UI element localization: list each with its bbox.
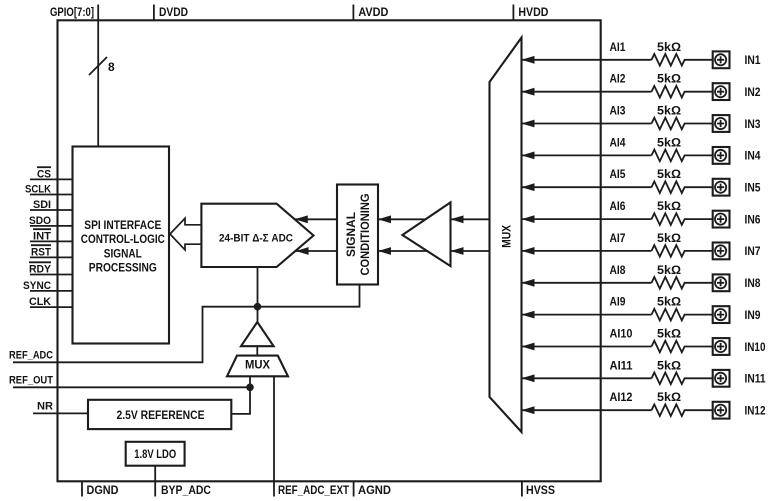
hollow bus arrow ADC to SPI <box>170 218 201 250</box>
node AI2 input line <box>522 72 652 96</box>
svg-text:MUX: MUX <box>500 225 514 248</box>
svg-text:5kΩ: 5kΩ <box>657 40 681 54</box>
svg-text:BYP_ADC: BYP_ADC <box>161 483 211 497</box>
svg-text:DVDD: DVDD <box>159 5 188 19</box>
wire LDO to BYP_ADC <box>154 466 156 497</box>
svg-text:REF_OUT: REF_OUT <box>9 374 53 386</box>
terminal IN10 <box>713 338 766 355</box>
resistor 5k ohm row 4 <box>652 135 713 161</box>
terminal IN6 <box>713 211 761 228</box>
buffer amp B1 <box>241 322 274 346</box>
svg-text:AI2: AI2 <box>610 72 626 86</box>
wire mux right leg REF_ADC_EXT <box>273 376 275 496</box>
svg-text:5kΩ: 5kΩ <box>657 135 681 149</box>
svg-text:REF_ADC_EXT: REF_ADC_EXT <box>278 483 350 497</box>
terminal IN3 <box>713 115 761 132</box>
terminal IN1 <box>713 51 761 68</box>
svg-text:AI6: AI6 <box>610 199 626 213</box>
svg-text:5kΩ: 5kΩ <box>657 295 681 309</box>
mux U2 input MUX <box>490 38 522 433</box>
pin INT <box>30 229 73 242</box>
wire node to reference block <box>231 387 250 414</box>
wire REF_ADC to reference node <box>13 285 360 363</box>
svg-text:MUX: MUX <box>245 357 270 371</box>
node AI4 input line <box>522 135 652 159</box>
svg-text:INT: INT <box>33 230 51 242</box>
wire MUX to amp upper <box>451 215 490 223</box>
node AI6 input line <box>522 199 652 223</box>
svg-text:GPIO[7:0]: GPIO[7:0] <box>50 5 94 19</box>
svg-text:CONDITIONING: CONDITIONING <box>358 194 372 276</box>
wire GPIO bus <box>97 20 99 146</box>
svg-text:IN1: IN1 <box>745 53 761 67</box>
svg-text:IN2: IN2 <box>745 85 761 99</box>
svg-text:IN9: IN9 <box>745 308 761 322</box>
pin RDY <box>29 262 73 275</box>
svg-text:5kΩ: 5kΩ <box>657 263 681 277</box>
svg-text:5kΩ: 5kΩ <box>657 390 681 404</box>
terminal IN11 <box>713 370 766 387</box>
junction node ref <box>254 303 262 311</box>
block 2.5V reference <box>88 400 231 429</box>
svg-text:IN4: IN4 <box>745 149 761 163</box>
wire REF_OUT <box>13 386 250 388</box>
svg-text:CONTROL-LOGIC: CONTROL-LOGIC <box>81 232 165 246</box>
svg-text:SIGNAL: SIGNAL <box>344 212 358 257</box>
svg-text:AI7: AI7 <box>610 231 626 245</box>
svg-text:IN7: IN7 <box>745 244 761 258</box>
terminal IN7 <box>713 243 761 260</box>
pin SCLK <box>25 184 73 196</box>
svg-text:AI3: AI3 <box>610 104 626 118</box>
pin CS <box>30 167 73 180</box>
svg-text:5kΩ: 5kΩ <box>657 199 681 213</box>
svg-text:REF_ADC: REF_ADC <box>9 349 53 361</box>
pin CLK <box>29 296 73 308</box>
node AI7 input line <box>522 231 652 255</box>
node AI11 input line <box>522 358 652 382</box>
node AI8 input line <box>522 263 652 287</box>
svg-text:SDO: SDO <box>29 215 51 227</box>
terminal IN2 <box>713 83 761 100</box>
pin REF_ADC_EXT <box>278 483 350 497</box>
pin RST <box>30 245 73 258</box>
op-amp buffer A1 <box>402 202 450 266</box>
resistor 5k ohm row 5 <box>652 167 713 193</box>
pin GPIO[7:0] <box>50 5 98 21</box>
svg-text:IN5: IN5 <box>745 181 761 195</box>
svg-text:8: 8 <box>108 60 115 74</box>
pin SDO <box>29 215 73 227</box>
terminal IN5 <box>713 179 761 196</box>
svg-text:SIGNAL: SIGNAL <box>104 246 142 260</box>
node AI10 input line <box>522 327 652 351</box>
svg-text:AI5: AI5 <box>610 167 626 181</box>
terminal IN8 <box>713 274 761 291</box>
resistor 5k ohm row 2 <box>652 72 713 98</box>
mux U3 reference MUX <box>227 356 288 377</box>
svg-text:IN11: IN11 <box>745 372 766 386</box>
svg-text:CS: CS <box>37 168 51 180</box>
node AI3 input line <box>522 104 652 128</box>
wire buffer to mux <box>256 346 258 355</box>
svg-text:24-BIT Δ-Σ ADC: 24-BIT Δ-Σ ADC <box>219 232 293 244</box>
svg-text:RDY: RDY <box>29 264 52 276</box>
resistor 5k ohm row 9 <box>652 295 713 321</box>
svg-text:IN10: IN10 <box>745 340 766 354</box>
svg-text:2.5V REFERENCE: 2.5V REFERENCE <box>117 408 205 422</box>
chip body outline <box>58 20 601 481</box>
svg-text:IN3: IN3 <box>745 117 761 131</box>
bus width slash 8 <box>89 57 115 75</box>
svg-text:5kΩ: 5kΩ <box>657 358 681 372</box>
pin AGND <box>354 481 392 497</box>
pin DGND <box>82 481 119 497</box>
svg-text:AI10: AI10 <box>610 327 633 341</box>
junction node ref_out <box>246 384 254 392</box>
svg-text:HVDD: HVDD <box>518 5 548 19</box>
pin HVDD <box>513 5 548 21</box>
node AI5 input line <box>522 167 652 191</box>
resistor 5k ohm row 7 <box>652 231 713 257</box>
wire MUX to amp lower <box>451 247 490 255</box>
svg-text:SPI INTERFACE: SPI INTERFACE <box>84 218 161 232</box>
node AI12 input line <box>522 390 652 414</box>
resistor 5k ohm row 12 <box>652 390 713 416</box>
wire ADC to node <box>257 267 259 322</box>
block 24-bit delta-sigma ADC <box>201 204 313 267</box>
svg-text:AI8: AI8 <box>610 263 626 277</box>
svg-text:5kΩ: 5kΩ <box>657 104 681 118</box>
resistor 5k ohm row 11 <box>652 358 713 384</box>
svg-text:NR: NR <box>37 400 53 412</box>
svg-text:AVDD: AVDD <box>358 5 388 19</box>
node AI9 input line <box>522 295 652 319</box>
resistor 5k ohm row 3 <box>652 104 713 130</box>
svg-text:AI4: AI4 <box>610 135 626 149</box>
pin REF_ADC <box>9 349 53 361</box>
svg-text:IN8: IN8 <box>745 276 761 290</box>
terminal IN9 <box>713 306 761 323</box>
svg-text:SCLK: SCLK <box>25 184 51 196</box>
svg-text:5kΩ: 5kΩ <box>657 72 681 86</box>
terminal IN12 <box>713 402 766 419</box>
svg-text:IN12: IN12 <box>745 404 766 418</box>
pin HVSS <box>522 481 555 497</box>
svg-text:5kΩ: 5kΩ <box>657 327 681 341</box>
wire amp to SC lower <box>378 247 427 255</box>
svg-text:AI12: AI12 <box>610 390 633 404</box>
pin SDI <box>30 199 73 211</box>
svg-text:HVSS: HVSS <box>526 483 555 497</box>
svg-text:RST: RST <box>31 246 51 258</box>
svg-text:DGND: DGND <box>87 483 119 497</box>
pin SYNC <box>23 280 73 292</box>
svg-text:CLK: CLK <box>29 296 51 308</box>
svg-text:SYNC: SYNC <box>23 280 51 292</box>
wire SC to ADC upper <box>295 215 337 223</box>
svg-text:1.8V LDO: 1.8V LDO <box>134 447 176 461</box>
resistor 5k ohm row 8 <box>652 263 713 289</box>
block signal conditioning <box>337 185 378 285</box>
pin BYP_ADC <box>161 483 211 497</box>
pin AVDD <box>353 5 388 21</box>
resistor 5k ohm row 6 <box>652 199 713 225</box>
resistor 5k ohm row 1 <box>652 40 713 66</box>
wire amp to SC upper <box>378 215 426 223</box>
wire mux left leg <box>249 376 251 387</box>
svg-text:AI9: AI9 <box>610 295 626 309</box>
svg-text:IN6: IN6 <box>745 212 761 226</box>
svg-text:AI11: AI11 <box>610 358 633 372</box>
svg-text:5kΩ: 5kΩ <box>657 167 681 181</box>
pin NR <box>33 400 88 413</box>
svg-text:SDI: SDI <box>33 199 51 211</box>
svg-text:AGND: AGND <box>358 483 391 497</box>
pin REF_OUT <box>9 374 53 386</box>
svg-text:PROCESSING: PROCESSING <box>89 261 157 275</box>
block U1 SPI interface control-logic signal processing <box>73 147 170 344</box>
block 1.8V LDO <box>126 442 185 466</box>
svg-text:5kΩ: 5kΩ <box>657 231 681 245</box>
node AI1 input line <box>522 40 652 64</box>
pin DVDD <box>154 5 188 21</box>
wire SC to ADC lower <box>296 247 337 255</box>
svg-text:AI1: AI1 <box>610 40 626 54</box>
terminal IN4 <box>713 147 761 164</box>
resistor 5k ohm row 10 <box>652 327 713 353</box>
